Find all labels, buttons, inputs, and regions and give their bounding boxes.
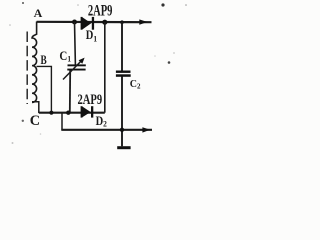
wire C lead — [32, 102, 39, 113]
capacitor C1 lower wire — [69, 70, 71, 113]
output arrow top — [139, 19, 147, 24]
capacitor C1 plates — [68, 64, 86, 66]
junction C2 on line2 — [120, 128, 124, 132]
wire bottom rail (line2) — [61, 129, 152, 131]
capacitor C2 branch wire — [121, 22, 123, 71]
capacitor C2 plates — [116, 71, 131, 73]
wire B tap — [37, 66, 52, 112]
wire top rail — [37, 21, 152, 24]
junction right vertical top — [102, 20, 107, 25]
diode D2 — [81, 106, 94, 117]
junction C1 on line1 — [66, 111, 70, 115]
wire stub line1 to line2 — [61, 113, 63, 130]
svg-text:A: A — [34, 6, 43, 20]
capacitor C1 branch upper wire — [74, 22, 77, 65]
diode D1 — [81, 17, 95, 30]
core dashed line — [26, 32, 28, 105]
wire D2 line (line1) — [39, 112, 105, 114]
wire right vertical — [104, 22, 106, 113]
svg-text:B: B — [40, 54, 46, 68]
svg-text:2AP9: 2AP9 — [88, 2, 113, 20]
output arrow bottom — [142, 127, 150, 132]
junction C2 top — [120, 20, 124, 24]
junction B on line1 — [49, 111, 53, 115]
ground bar — [117, 146, 130, 149]
noise specks — [173, 52, 175, 54]
capacitor C1 arrow — [63, 60, 82, 80]
junction C1 top — [72, 20, 77, 25]
inductor L coil — [32, 22, 37, 103]
svg-text:2AP9: 2AP9 — [78, 90, 103, 107]
svg-text:C: C — [30, 113, 40, 129]
